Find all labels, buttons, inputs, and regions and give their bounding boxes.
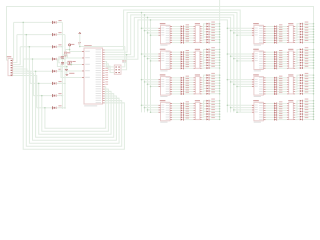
wire LED46 to cathode bus	[210, 62, 221, 64]
wire LED67 to RN	[278, 30, 287, 32]
wire IC3 control pin 2	[144, 81, 159, 83]
wire RN to LED114	[295, 78, 300, 80]
LED59	[206, 104, 215, 107]
LED110	[300, 61, 309, 64]
wire RN to LED108	[295, 57, 300, 59]
wire LED108 to cathode bus	[303, 57, 314, 59]
LED81	[274, 76, 282, 79]
wire RN to LED115	[295, 80, 300, 82]
wire LED33 to cathode bus	[210, 23, 221, 25]
wire bank1 control vertical 2	[144, 14, 146, 112]
LED54	[206, 86, 215, 89]
wire LED14 to RN	[184, 63, 193, 65]
wire RN to LED36	[202, 32, 207, 34]
wire LED6 to RN	[184, 37, 193, 39]
wire LED54 to cathode bus	[210, 88, 221, 90]
LED60	[206, 107, 215, 110]
LED53	[206, 84, 215, 87]
wire LED24 to RN	[184, 93, 193, 95]
wire IC5 output 6	[266, 37, 275, 39]
wire RN to LED126	[295, 113, 300, 116]
wire RN to LED35	[202, 29, 207, 31]
wire LED112 to cathode bus	[303, 67, 314, 69]
LED75	[274, 55, 282, 58]
LED105	[300, 47, 309, 50]
connector SV1	[7, 56, 13, 75]
LED25	[181, 101, 189, 104]
LED90	[274, 104, 282, 107]
wire RN to LED106	[295, 52, 300, 54]
wire RN to LED104	[295, 41, 300, 43]
wire IC5 control pin 1	[227, 28, 252, 30]
wire LED56 to cathode bus	[210, 93, 221, 95]
LED33	[206, 22, 215, 25]
wire ISP VCC up	[121, 47, 125, 67]
wire connector pin 5 to key row 5	[13, 69, 53, 71]
ground GND1	[65, 67, 68, 72]
wire IC2 control pin 3	[147, 58, 159, 60]
LED91	[274, 106, 282, 109]
wire RN to LED98	[295, 26, 300, 28]
wire LED78 to RN	[278, 63, 287, 65]
wire IC3 output 1	[172, 77, 181, 79]
wire crystal network	[63, 55, 73, 65]
pushbutton S3	[52, 44, 62, 48]
wire LED105 to cathode bus	[303, 49, 314, 51]
wire RN to LED53	[202, 86, 207, 87]
wire LED51 to cathode bus	[210, 80, 221, 82]
wire LED10 to RN	[184, 54, 193, 56]
LED50	[206, 76, 215, 79]
LED44	[206, 55, 215, 58]
pushbutton S1	[52, 20, 62, 24]
LED48	[206, 66, 215, 69]
wire connector pin 2 to key row 2	[13, 35, 53, 63]
LED64	[206, 117, 215, 120]
wire LED66 to RN	[278, 28, 287, 30]
wire RN to LED59	[202, 106, 207, 108]
wire LED73 to RN	[278, 51, 287, 53]
LED15	[181, 64, 189, 67]
wire RN to LED102	[295, 37, 300, 38]
resistor network RN2	[193, 49, 201, 69]
LED107	[300, 53, 309, 56]
wire RN to LED62	[202, 113, 207, 116]
wire LED122 to cathode bus	[303, 103, 314, 105]
LED17	[181, 76, 189, 79]
wire RN to LED64	[202, 118, 207, 120]
wire LED22 to RN	[184, 88, 193, 90]
wire LED92 to RN	[278, 109, 287, 111]
LED43	[206, 53, 215, 56]
wire ISP SCK up	[121, 54, 127, 70]
wire RN to LED127	[295, 116, 300, 119]
LED70	[274, 36, 282, 39]
wire LED49 to cathode bus	[210, 74, 221, 76]
wire IC1 output 6	[172, 37, 181, 39]
LED51	[206, 78, 215, 81]
wire RN to LED45	[202, 60, 207, 61]
wire S7 to key column	[57, 95, 63, 97]
LED80	[274, 66, 282, 69]
wire RN to LED100	[295, 32, 300, 34]
wire LED62 to cathode bus	[210, 113, 221, 115]
wire LED114 to cathode bus	[303, 77, 314, 79]
LED40	[206, 40, 215, 43]
wire reset to MCU	[67, 71, 82, 74]
wire RN to LED61	[202, 111, 207, 112]
LED77	[274, 59, 282, 62]
wire RN to LED37	[202, 34, 207, 35]
resistor R1	[65, 49, 71, 56]
wire LED48 to cathode bus	[210, 67, 221, 69]
shift register IC6 74HC595	[252, 49, 266, 72]
wire IC3 control pin 4	[150, 86, 159, 88]
wire IC7 output 7	[266, 91, 275, 93]
resistor network RN1	[193, 23, 201, 43]
wire IC8 output 1	[266, 103, 275, 105]
wire LED82 to RN	[278, 79, 287, 81]
LED117	[300, 84, 309, 87]
wire LED86 to RN	[278, 88, 287, 90]
wire LED72 to RN	[278, 42, 287, 44]
wire IC1 output 8	[172, 42, 181, 44]
wire LED96 to RN	[278, 119, 287, 121]
wire RN to LED51	[202, 80, 207, 82]
wire LED38 to cathode bus	[210, 36, 221, 38]
wire IC5 output 2	[266, 28, 275, 30]
wire IC3 output 8	[172, 93, 181, 95]
LED79	[274, 64, 282, 67]
wire IC5 output 5	[266, 35, 275, 37]
wire IC1 output 1	[172, 26, 181, 28]
wire IC8 output 6	[266, 114, 275, 116]
wire S2 to key column	[57, 34, 65, 36]
wire LED119 to cathode bus	[303, 90, 314, 92]
wire S1 to key column	[57, 21, 62, 23]
wire S6 to key column	[57, 83, 66, 85]
wire LED20 to RN	[184, 84, 193, 86]
wire RN to LED128	[295, 118, 300, 120]
wire key row net 7 (button to MCU)	[41, 89, 108, 131]
wire IC2 output 5	[172, 60, 181, 62]
LED27	[181, 106, 189, 109]
wire IC1 output 5	[172, 35, 181, 37]
resistor network RN7	[287, 74, 295, 94]
wire LED19 to RN	[184, 81, 193, 83]
wire RN to LED54	[202, 87, 207, 90]
wire LED95 to RN	[278, 116, 287, 118]
wire LED80 to RN	[278, 67, 287, 69]
wire IC3 output 3	[172, 81, 181, 83]
LED30	[181, 113, 189, 116]
wire IC3 control pin 1	[141, 79, 159, 81]
wire LED98 to cathode bus	[303, 26, 314, 28]
LED85	[274, 85, 282, 88]
wire IC7 control pin 2	[230, 81, 252, 83]
wire key row net 2 (button to MCU)	[26, 34, 122, 146]
wire RN to LED34	[202, 26, 207, 28]
wire RN to LED123	[295, 106, 300, 108]
wire LED8 to RN	[184, 42, 193, 44]
wire RN to LED40	[202, 41, 207, 43]
wire LED45 to cathode bus	[210, 59, 221, 61]
LED11	[181, 55, 189, 58]
wire IC1 output 3	[172, 30, 181, 32]
wire LED26 to RN	[184, 105, 193, 107]
LED71	[274, 38, 282, 41]
LED21	[181, 85, 189, 88]
LED63	[206, 115, 215, 118]
LED58	[206, 101, 215, 104]
wire LED36 to cathode bus	[210, 31, 221, 33]
wire IC8 control pin 1	[227, 105, 252, 107]
LED108	[300, 55, 309, 58]
pushbutton S8	[52, 105, 62, 109]
shift register IC2 74HC595	[158, 49, 172, 72]
wire RN to LED105	[295, 50, 300, 53]
capacitor C1	[61, 56, 64, 58]
wire LED116 to cathode bus	[303, 82, 314, 84]
LED37	[206, 32, 215, 35]
LED24	[181, 92, 189, 95]
LED36	[206, 30, 215, 33]
wire bank1 control vertical 3	[147, 17, 149, 113]
LED23	[181, 90, 189, 93]
LED124	[300, 107, 309, 110]
LED65	[274, 24, 282, 27]
wire IC7 output 1	[266, 77, 275, 79]
LED84	[274, 83, 282, 86]
wire IC6 output 2	[266, 54, 275, 56]
wire LED37 to cathode bus	[210, 34, 221, 36]
wire LED55 to cathode bus	[210, 90, 221, 92]
wire LED89 to RN	[278, 103, 287, 105]
LED96	[274, 118, 282, 121]
wire IC6 control pin 4	[236, 60, 252, 62]
wire IC3 output 7	[172, 91, 181, 93]
LED118	[300, 86, 309, 89]
wire IC7 output 5	[266, 86, 275, 88]
wire IC5 control pin 3	[233, 32, 252, 34]
LED13	[181, 59, 189, 62]
wire LED13 to RN	[184, 60, 193, 62]
wire LED2 to RN	[184, 28, 193, 30]
LED87	[274, 90, 282, 93]
wire IC4 output 5	[172, 112, 181, 114]
wire LED57 to cathode bus	[210, 100, 221, 102]
wire LED42 to cathode bus	[210, 51, 221, 53]
pushbutton S2	[52, 32, 62, 36]
wire IC7 control pin 3	[233, 83, 252, 85]
wire LED91 to RN	[278, 107, 287, 109]
wire LED18 to RN	[184, 79, 193, 81]
LED7	[181, 38, 189, 41]
wire IC4 output 8	[172, 119, 181, 121]
wire LED28 to RN	[184, 109, 193, 111]
wire LED79 to RN	[278, 65, 287, 67]
wire LED99 to cathode bus	[303, 28, 314, 30]
wire RN to LED46	[202, 63, 207, 64]
wire LED cathode bus bank1 (to sheet top)	[219, 0, 221, 120]
resistor network RN4	[193, 100, 201, 120]
supply VCC P1	[69, 44, 75, 46]
wire LED100 to cathode bus	[303, 31, 314, 33]
LED31	[181, 115, 189, 118]
LED4	[181, 31, 189, 34]
wire shift-register control net 2 (MCU to banks)	[105, 13, 237, 113]
wire IC1 output 4	[172, 32, 181, 34]
wire IC1 control pin 2	[144, 30, 159, 32]
wire IC6 output 4	[266, 58, 275, 60]
LED101	[300, 32, 309, 35]
wire IC6 output 8	[266, 67, 275, 69]
wire IC8 output 3	[266, 107, 275, 109]
supply VCC P2 (AVCC)	[78, 33, 81, 45]
LED76	[274, 57, 282, 60]
LED35	[206, 27, 215, 30]
LED32	[181, 118, 189, 121]
wire shift-register control net 5 (MCU to banks)	[105, 20, 228, 113]
wire LED77 to RN	[278, 60, 287, 62]
LED89	[274, 101, 282, 104]
LED47	[206, 63, 215, 66]
wire LED75 to RN	[278, 56, 287, 58]
wire MCU to ISP pin 3	[105, 66, 115, 72]
wire LED31 to RN	[184, 116, 193, 118]
LED2	[181, 27, 189, 30]
wire LED23 to RN	[184, 91, 193, 93]
wire key column B	[64, 35, 66, 109]
wire S8 to key column	[57, 107, 66, 109]
wire IC2 output 7	[172, 65, 181, 67]
LED123	[300, 104, 309, 107]
net label MCU pin 9	[105, 67, 108, 70]
wire shift-register control net 1 (MCU to banks)	[105, 10, 241, 112]
LED94	[274, 113, 282, 116]
wire RN to LED111	[295, 64, 300, 67]
wire MCU to ISP pin 2	[105, 64, 115, 70]
wire RN to LED103	[295, 39, 300, 42]
LED62	[206, 112, 215, 115]
wire LED12 to RN	[184, 58, 193, 60]
wire IC5 output 1	[266, 26, 275, 28]
wire RN to LED125	[295, 111, 300, 112]
wire LED40 to cathode bus	[210, 42, 221, 44]
LED61	[206, 109, 215, 112]
wire RN to LED55	[202, 90, 207, 93]
wire LED84 to RN	[278, 84, 287, 86]
wire connector pin 7 to key row 7	[13, 73, 53, 95]
LED115	[300, 78, 309, 81]
wire LED127 to cathode bus	[303, 116, 314, 118]
wire IC5 output 4	[266, 32, 275, 34]
wire RN to LED39	[202, 39, 207, 42]
wire LED85 to RN	[278, 86, 287, 88]
wire LED125 to cathode bus	[303, 111, 314, 113]
LED55	[206, 89, 215, 92]
LED42	[206, 50, 215, 53]
wire LED35 to cathode bus	[210, 28, 221, 30]
LED103	[300, 38, 309, 41]
LED83	[274, 80, 282, 83]
LED38	[206, 35, 215, 38]
wire RN to LED107	[295, 55, 300, 57]
wire C1 C2 ground	[57, 57, 67, 67]
wire IC5 output 8	[266, 42, 275, 44]
wire IC1 control pin 3	[147, 32, 159, 34]
net label MCU pin 13	[105, 76, 108, 79]
wire IC7 output 3	[266, 81, 275, 83]
microcontroller IC10 ATMEGA8	[82, 45, 105, 106]
wire LED64 to cathode bus	[210, 119, 221, 121]
wire IC6 control pin 1	[227, 53, 252, 55]
LED19	[181, 80, 189, 83]
wire LED83 to RN	[278, 81, 287, 83]
wire IC8 output 7	[266, 116, 275, 118]
wire IC6 output 7	[266, 65, 275, 67]
wire LED5 to RN	[184, 35, 193, 37]
net label MCU pin 15	[105, 81, 108, 84]
wire LED21 to RN	[184, 86, 193, 88]
wire XTAL1 to MCU	[65, 56, 82, 58]
wire LED126 to cathode bus	[303, 113, 314, 115]
LED10	[181, 52, 189, 55]
wire IC5 output 7	[266, 39, 275, 41]
ground GND2	[66, 73, 75, 76]
wire IC8 control pin 4	[236, 111, 252, 113]
wire LED32 to RN	[184, 119, 193, 121]
wire RN to LED50	[202, 78, 207, 80]
wire RN to LED58	[202, 104, 207, 106]
LED16	[181, 66, 189, 69]
wire IC6 output 6	[266, 63, 275, 65]
wire IC6 output 3	[266, 56, 275, 58]
wire IC2 output 8	[172, 67, 181, 69]
wire LED111 to cathode bus	[303, 65, 314, 67]
wire LED115 to cathode bus	[303, 80, 314, 82]
wire RN to LED99	[295, 29, 300, 31]
wire key column A	[61, 22, 63, 109]
wire RN to LED56	[202, 93, 207, 95]
wire IC2 control pin 1	[141, 53, 159, 55]
wire RN to LED60	[202, 109, 207, 111]
LED39	[206, 38, 215, 41]
wire RN to LED57	[202, 101, 207, 104]
wire RN to LED47	[202, 64, 207, 67]
wire LED118 to cathode bus	[303, 88, 314, 90]
shift register IC8 74HC595	[252, 100, 266, 123]
pin header SV2 (ISP)	[114, 60, 127, 74]
wire connector pin 8 to key row 8	[13, 76, 53, 108]
LED22	[181, 87, 189, 90]
wire IC8 control pin 3	[233, 109, 252, 111]
wire LED70 to RN	[278, 37, 287, 39]
LED106	[300, 50, 309, 53]
wire IC2 output 1	[172, 51, 181, 53]
wire key row net 3 (button to MCU)	[29, 46, 119, 143]
LED69	[274, 34, 282, 37]
wire LED124 to cathode bus	[303, 108, 314, 110]
LED26	[181, 104, 189, 107]
wire LED41 to cathode bus	[210, 49, 221, 51]
pushbutton S4	[52, 57, 62, 61]
wire LED103 to cathode bus	[303, 39, 314, 41]
LED98	[300, 24, 309, 27]
net label MCU pin 12	[105, 74, 108, 77]
LED111	[300, 63, 309, 66]
wire LED71 to RN	[278, 39, 287, 41]
